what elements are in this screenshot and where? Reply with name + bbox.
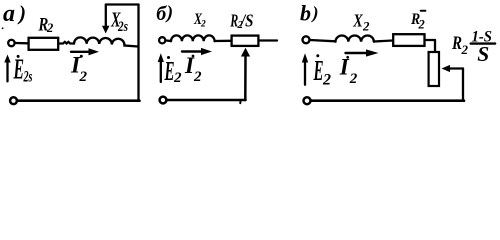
svg-text:R: R — [451, 34, 462, 54]
svg-text:S: S — [477, 42, 489, 66]
svg-text:2: 2 — [349, 71, 358, 87]
svg-text:E: E — [164, 56, 175, 86]
svg-text:2: 2 — [46, 21, 53, 35]
svg-text:2: 2 — [173, 70, 182, 86]
svg-text:X: X — [353, 11, 364, 31]
svg-text:2: 2 — [79, 69, 88, 85]
svg-text:а: а — [3, 1, 15, 27]
svg-text:): ) — [165, 3, 173, 24]
svg-text:2s: 2s — [117, 19, 128, 35]
svg-text:I: I — [339, 54, 350, 79]
svg-text:2: 2 — [461, 42, 469, 57]
svg-text:b: b — [300, 1, 311, 26]
svg-text:/S: /S — [239, 10, 253, 30]
svg-text:б: б — [156, 3, 167, 25]
svg-text:2: 2 — [322, 72, 331, 89]
svg-text:E: E — [313, 55, 324, 87]
svg-text:): ) — [17, 1, 26, 25]
svg-text:2: 2 — [193, 69, 202, 85]
svg-text:2: 2 — [418, 18, 425, 32]
svg-text:E: E — [13, 55, 24, 86]
svg-text:2: 2 — [200, 20, 206, 30]
svg-text:2s: 2s — [23, 69, 33, 86]
svg-text:): ) — [311, 3, 319, 24]
svg-text:2: 2 — [362, 19, 370, 34]
